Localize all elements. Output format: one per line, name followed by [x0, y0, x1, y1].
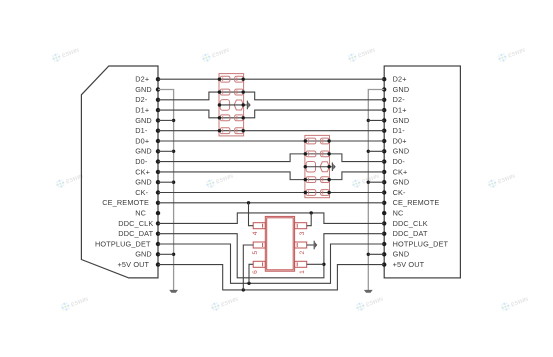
svg-text:+5V OUT: +5V OUT [118, 260, 150, 269]
IC U1 pin 4 wire to CE_REMOTE [249, 203, 254, 226]
svg-text:GND: GND [135, 250, 152, 259]
svg-text:GND: GND [393, 147, 410, 156]
svg-text:D2-: D2- [393, 95, 406, 104]
right connector pin dots [382, 77, 386, 267]
wire net D0+ [158, 140, 384, 142]
svg-text:GND: GND [135, 147, 152, 156]
svg-text:NC: NC [135, 209, 146, 218]
svg-text:4: 4 [252, 231, 259, 235]
filter FL1 bead pair row 4 [220, 115, 243, 121]
svg-text:NC: NC [393, 209, 404, 218]
IC U1 pin 6 wire to HOTPLUG_DET [249, 264, 253, 283]
IC U1 pin 5 wire to +5V [243, 245, 253, 290]
filter FL2 center clamp elements [306, 161, 329, 172]
svg-text:CE_REMOTE: CE_REMOTE [393, 198, 440, 207]
svg-text:D0+: D0+ [393, 136, 407, 145]
left GND rail junction dots [172, 119, 175, 256]
wire net DDC_CLK [158, 213, 384, 224]
filter FL1 bead pair row 5 [220, 128, 243, 134]
left GND rail wire [158, 90, 174, 291]
IC U1 pin 1 wire to DDC_DAT [307, 263, 324, 265]
svg-text:2: 2 [299, 251, 306, 255]
svg-text:CK+: CK+ [393, 167, 408, 176]
wire net DDC_DAT [158, 234, 384, 278]
svg-text:HOTPLUG_DET: HOTPLUG_DET [95, 239, 151, 248]
left ground symbol [169, 290, 178, 293]
filter FL2 terminal dots [304, 139, 331, 194]
wire net +5V OUT [158, 265, 384, 290]
wire net CK- [158, 192, 384, 194]
right GND rail stub wires [368, 120, 384, 254]
svg-text:GND: GND [135, 116, 152, 125]
left connector pin name labels [95, 75, 154, 269]
right GND rail wire [368, 90, 384, 291]
junction dot +5V to U1 pin5 [242, 288, 245, 291]
filter FL1 bead pair row 2 [220, 89, 243, 95]
IC U1 pin 3 [295, 223, 307, 236]
svg-text:D1+: D1+ [393, 106, 407, 115]
svg-text:HOTPLUG_DET: HOTPLUG_DET [393, 239, 449, 248]
svg-text:GND: GND [135, 85, 152, 94]
wire net CK+ [158, 172, 384, 180]
filter FL1 center clamp elements [220, 100, 243, 111]
filter FL1 shield ground arrow [247, 101, 251, 110]
junction dot HOTPLUG_DET to U1 pin6 [247, 282, 250, 285]
svg-text:D2+: D2+ [135, 75, 149, 84]
svg-text:3: 3 [299, 231, 306, 235]
junction dot DDC_DAT to U1 pin1 [322, 263, 325, 266]
svg-text:D1-: D1- [393, 126, 406, 135]
filter FL2 bead pair row 2 [306, 151, 329, 157]
IC U1 pin 3 wire to DDC_CLK [307, 213, 312, 226]
right ground symbol [364, 290, 373, 293]
junction dot CE_REMOTE to U1 pin4 [247, 201, 250, 204]
filter FL2 bead pair row 5 [306, 190, 329, 196]
svg-text:CK-: CK- [393, 188, 406, 197]
wire net CE_REMOTE [158, 202, 384, 204]
svg-text:GND: GND [393, 85, 410, 94]
filter FL2 shield ground arrow [332, 162, 336, 171]
filter FL2 center row wire [305, 166, 332, 168]
filter FL2 bead pair row 4 [306, 177, 329, 183]
filter FL1 bead pair row 1 [220, 76, 243, 82]
op IC U1 body (ESD protection diode array) [265, 216, 294, 271]
left connector pin dots [156, 77, 160, 267]
connector J2 (right DVI receptacle) body [384, 66, 460, 278]
filter FL1 terminal dots [218, 78, 245, 133]
junction dot DDC_CLK to U1 pin3 [310, 211, 313, 214]
IC U1 pin 2 [295, 242, 307, 255]
wire net D1+ [158, 110, 384, 118]
svg-text:D0-: D0- [135, 157, 148, 166]
svg-text:+5V OUT: +5V OUT [393, 260, 425, 269]
svg-text:D0-: D0- [393, 157, 406, 166]
IC U1 pin 4 [252, 223, 266, 236]
wire net HOTPLUG_DET [158, 244, 384, 283]
IC U1 pin 2 wire to ground arrow [307, 244, 314, 246]
IC U1 pin 2 ground arrow symbol [314, 241, 318, 250]
svg-text:1: 1 [299, 270, 306, 274]
IC U1 pin 5 [252, 242, 266, 255]
svg-text:D0+: D0+ [135, 136, 149, 145]
svg-text:CE_REMOTE: CE_REMOTE [102, 198, 149, 207]
svg-text:GND: GND [393, 178, 410, 187]
IC U1 pin 6 [252, 261, 266, 274]
filter FL2 body outline [305, 135, 330, 197]
svg-text:D1+: D1+ [135, 106, 149, 115]
svg-text:D2-: D2- [135, 95, 148, 104]
left GND rail stub wires [158, 120, 174, 254]
filter FL1 body outline [219, 74, 244, 136]
svg-text:GND: GND [135, 178, 152, 187]
wire net D2- [158, 92, 384, 100]
filter FL2 bead pair row 1 [306, 138, 329, 144]
svg-text:DDC_CLK: DDC_CLK [118, 219, 153, 228]
filter FL1 center row wire [219, 104, 247, 106]
svg-text:D2+: D2+ [393, 75, 407, 84]
IC U1 pin 1 [295, 261, 307, 274]
right GND rail junction dots [367, 119, 370, 256]
svg-text:CK-: CK- [135, 188, 148, 197]
svg-text:CK+: CK+ [135, 167, 150, 176]
wire net D2+ [158, 78, 384, 80]
svg-text:GND: GND [393, 250, 410, 259]
svg-text:5: 5 [252, 251, 259, 255]
svg-text:D1-: D1- [135, 126, 148, 135]
svg-text:6: 6 [252, 270, 259, 274]
svg-text:DDC_DAT: DDC_DAT [393, 229, 428, 238]
svg-text:DDC_DAT: DDC_DAT [118, 229, 153, 238]
wire net D0- [158, 154, 384, 162]
wire net D1- [158, 130, 384, 132]
svg-text:GND: GND [393, 116, 410, 125]
connector J1 (left DVI plug) body [81, 66, 158, 278]
svg-text:DDC_CLK: DDC_CLK [393, 219, 428, 228]
right connector pin name labels [393, 75, 449, 269]
